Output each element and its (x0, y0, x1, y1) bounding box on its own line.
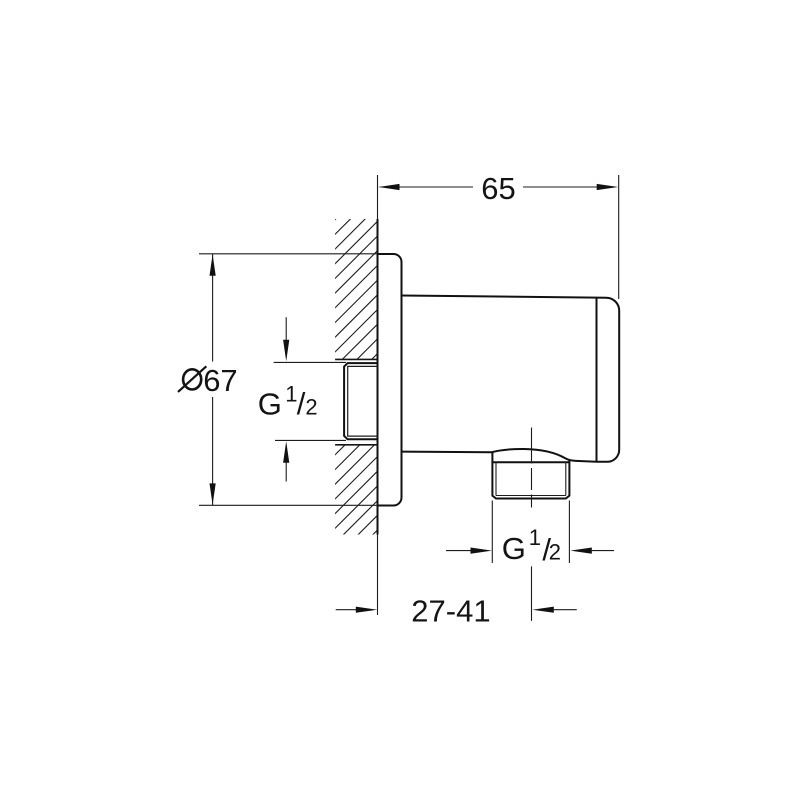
outlet spigot outline (492, 452, 569, 499)
dimension 65: line right segment (523, 186, 598, 188)
outlet G1/2 dim: left arrow line (446, 550, 472, 552)
dimension Ø67: diameter symbol slash (178, 366, 206, 392)
inlet G1/2 dim: lower extension line (275, 439, 346, 441)
wall recess upper edge (335, 358, 378, 360)
body top silhouette line (402, 296, 597, 298)
dimension Ø67: line upper segment (212, 254, 214, 362)
outlet thread shoulder top edge (492, 461, 569, 463)
inlet G1/2 dim: upper arrow shaft (285, 317, 287, 341)
end cap outline (597, 298, 620, 462)
svg-text:2: 2 (305, 395, 317, 420)
outlet chamfer line bottom (496, 495, 566, 497)
dimension Ø67: line lower segment (212, 397, 214, 505)
dimension Ø67: diameter symbol circle (183, 369, 201, 389)
svg-text:67: 67 (203, 363, 237, 398)
inlet G1/2 dim: lower arrow shaft (285, 462, 287, 482)
svg-text:1: 1 (285, 381, 297, 406)
dimension 27-41: right arrowhead (left-pointing) (532, 607, 554, 613)
body bottom silhouette with saddle over outlet (402, 449, 597, 462)
dimension 65: right extension line (618, 175, 620, 299)
dimension Ø67: bottom arrowhead (210, 483, 216, 505)
dimension Ø67: top arrowhead (210, 254, 216, 276)
centerline of outlet (dash-dot) (531, 428, 533, 508)
outlet G1/2 dim: right extension line (568, 501, 570, 564)
svg-text:1: 1 (529, 525, 541, 550)
inlet connector outline (behind wall) (344, 363, 378, 439)
svg-text:/: / (297, 386, 306, 421)
dimension 27-41: right arrow line (553, 609, 577, 611)
wall extension line down to 27-41 dimension (377, 535, 379, 616)
inlet G1/2 dim: lower arrowhead (up) (283, 441, 289, 463)
dimension 27-41: left arrow line (336, 609, 358, 611)
inlet G1/2 dim: upper arrowhead (down) (283, 340, 289, 362)
dimension Ø67: top extension line (199, 253, 378, 255)
svg-text:G: G (258, 387, 282, 422)
outlet G1/2 dim: left arrowhead (right-pointing) (471, 548, 493, 554)
dimension Ø67: bottom extension line (199, 504, 378, 506)
svg-text:2: 2 (549, 540, 561, 565)
wall hatching (300, 120, 420, 652)
dimension 27-41: left arrowhead (right-pointing) (356, 607, 378, 613)
outlet thread root line left (495, 462, 497, 495)
dimension 65: line left segment (398, 186, 473, 188)
dimension 65: right arrowhead (597, 184, 619, 190)
flange (escutcheon) outline (378, 254, 402, 506)
inlet G1/2 dim: upper extension line (274, 361, 346, 363)
wall extension line up to 65 dimension (377, 175, 379, 219)
svg-text:27-41: 27-41 (411, 594, 490, 629)
outlet G1/2 dim: left extension line (491, 501, 493, 564)
dimension 65: left arrowhead (378, 184, 400, 190)
outlet G1/2 dim: right arrow line (591, 550, 615, 552)
outlet thread root line right (565, 462, 567, 495)
outlet G1/2 dim: right arrowhead (left-pointing) (570, 548, 592, 554)
wall recess lower edge (335, 444, 378, 446)
wall face line (thick section) (377, 219, 379, 535)
centerline extension below outlet (531, 566, 533, 621)
svg-text:65: 65 (481, 171, 515, 206)
end cap inner edge (596, 298, 598, 462)
inlet connector inner chamfer lines (348, 366, 378, 436)
svg-text:G: G (502, 531, 526, 566)
